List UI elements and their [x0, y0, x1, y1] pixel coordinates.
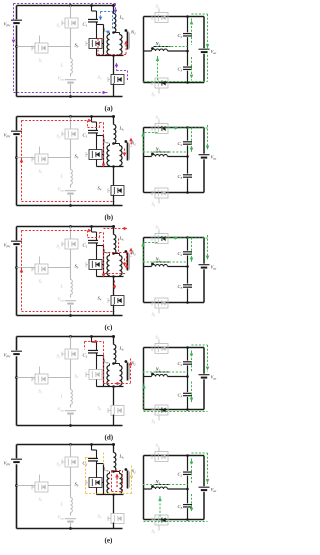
svg-text:L: L: [60, 174, 64, 179]
svg-text:L: L: [60, 394, 64, 399]
svg-text:(b): (b): [105, 214, 114, 222]
svg-text:L: L: [60, 284, 64, 289]
svg-text:(c): (c): [105, 324, 113, 332]
svg-text:L: L: [60, 63, 64, 68]
svg-text:L: L: [60, 502, 64, 507]
svg-text:(a): (a): [105, 105, 114, 113]
svg-text:(d): (d): [105, 434, 114, 442]
svg-text:(e): (e): [105, 537, 113, 545]
